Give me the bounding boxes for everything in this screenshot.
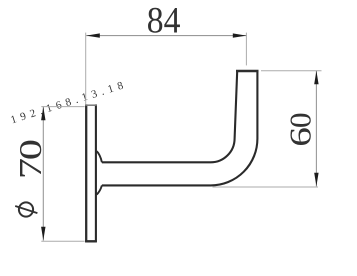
wall plate top edge bbox=[85, 104, 97, 106]
dim 84 extension line left bbox=[85, 33, 87, 105]
wall plate right edge bbox=[95, 104, 97, 242]
dim 60 arrow bottom bbox=[314, 173, 318, 187]
arm bottom line + outer bend arc + tube right edge bbox=[102, 71, 258, 185]
dim 84 arrow right bbox=[233, 33, 247, 37]
dim phi70 extension line top bbox=[41, 106, 84, 108]
dim 84 dimension line bbox=[86, 35, 246, 37]
dim phi70 label "ø" circle bbox=[19, 202, 33, 216]
svg-text:84: 84 bbox=[147, 0, 181, 41]
dim phi70 label "ø" slash bbox=[15, 206, 37, 213]
svg-text:6: 6 bbox=[283, 127, 318, 147]
dim 60 dimension line bbox=[315, 71, 317, 187]
wall plate left edge bbox=[85, 104, 87, 242]
wall plate bottom edge bbox=[85, 240, 97, 242]
dim 84 extension line right bbox=[245, 33, 247, 66]
dim phi70 arrow top bbox=[41, 107, 45, 121]
dim phi70 arrow bottom bbox=[41, 227, 45, 241]
svg-text:7: 7 bbox=[14, 158, 49, 179]
boss top profile curve bbox=[97, 151, 102, 162]
dim 60 arrow top bbox=[314, 71, 318, 85]
dim 60 extension line top bbox=[261, 70, 322, 72]
arm top line + inner bend arc + tube left edge bbox=[102, 71, 237, 162]
dim phi70 dimension line bbox=[42, 107, 44, 241]
tube top cap bbox=[236, 70, 259, 72]
svg-text:0: 0 bbox=[14, 139, 49, 160]
svg-text:0: 0 bbox=[283, 113, 318, 129]
boss bottom profile curve bbox=[97, 185, 102, 194]
dim 84 arrow left bbox=[86, 33, 100, 37]
dim 60 extension line bottom bbox=[213, 186, 319, 188]
dim phi70 extension line bottom bbox=[41, 240, 84, 242]
